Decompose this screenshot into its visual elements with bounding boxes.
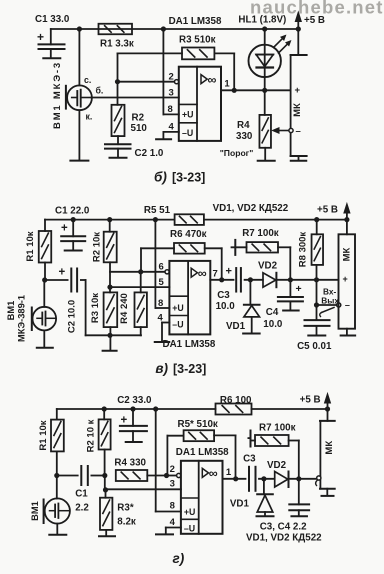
node rail-C1 junction (circuit v) bbox=[71, 217, 76, 222]
resistor R8 300k (circuit v) bbox=[298, 220, 324, 280]
node output/LED junction (circuit b) bbox=[262, 88, 267, 93]
wire +5V rail right section (circuit g) bbox=[252, 408, 328, 410]
svg-text:HL1 (1.8V): HL1 (1.8V) bbox=[238, 15, 286, 26]
svg-text:МК: МК bbox=[324, 441, 335, 455]
wire R6 left to pin6 node (circuit v) bbox=[141, 248, 174, 271]
resistor R4 330 (circuit g) bbox=[114, 458, 166, 481]
wire rail to +U pin 8 (circuit g) bbox=[156, 409, 181, 512]
wire rail to +U pin 8 (circuit v) bbox=[155, 220, 169, 308]
node rail-C1/mic junction (circuit b) bbox=[77, 26, 82, 31]
capacitor C2 33.0 (circuit g) bbox=[117, 395, 152, 441]
capacitor C4 10.0 (circuit v) bbox=[263, 280, 303, 330]
svg-text:R7 100к: R7 100к bbox=[242, 228, 279, 239]
node C3/VD1/VD2 junction (circuit v) bbox=[248, 277, 253, 282]
node R1/mic/C2 junction (circuit v) bbox=[42, 277, 47, 282]
svg-text:3: 3 bbox=[169, 87, 174, 98]
microphone BM1 MKE-3 (circuit b) bbox=[52, 29, 103, 129]
wire R1 to input node (circuit v) bbox=[44, 263, 46, 281]
capacitor C1 22.0 (circuit v) bbox=[55, 206, 90, 250]
ground of MK (circuit b) bbox=[291, 160, 307, 162]
svg-text:R3*: R3* bbox=[117, 503, 134, 514]
svg-text:8: 8 bbox=[158, 298, 163, 309]
svg-text:8.2к: 8.2к bbox=[117, 516, 136, 527]
pin 5 label (circuit v) bbox=[159, 277, 165, 288]
wire C3 to VD2 (circuit g) bbox=[259, 478, 274, 480]
node rail-R2 junction (circuit v) bbox=[107, 217, 112, 222]
ground of microphone (circuit g) bbox=[49, 534, 66, 536]
resistor R1 10k (circuit v) bbox=[25, 220, 51, 263]
svg-text:+5 В: +5 В bbox=[304, 15, 325, 26]
pin 1 label (circuit b) bbox=[224, 78, 230, 89]
wire +5V rail right section (circuit v) bbox=[204, 219, 347, 221]
node C2/R3 junction (circuit v) bbox=[107, 333, 112, 338]
wire +5V rail (circuit b) bbox=[51, 28, 298, 30]
wire +5V rail left section (circuit g) bbox=[57, 408, 216, 410]
diode VD2 (circuit g) bbox=[267, 460, 289, 487]
svg-text:R4: R4 bbox=[237, 120, 250, 131]
switch contact hook (circuit g) bbox=[316, 476, 321, 486]
wire R3 right to output (circuit b) bbox=[214, 53, 234, 90]
caption g) bbox=[173, 551, 185, 566]
svg-text:R1 10к: R1 10к bbox=[38, 420, 49, 450]
pin 8 label (circuit b) bbox=[168, 104, 173, 115]
svg-text:510: 510 bbox=[131, 123, 148, 134]
svg-text:+: + bbox=[226, 266, 232, 278]
ground of C1 (circuit b) bbox=[43, 57, 60, 59]
label C3, C4 2.2 (circuit g) bbox=[260, 522, 307, 533]
svg-text:8: 8 bbox=[170, 501, 175, 512]
svg-text:[3-23]: [3-23] bbox=[173, 362, 206, 376]
svg-text:1: 1 bbox=[224, 78, 230, 89]
svg-text:VD1, VD2 КД522: VD1, VD2 КД522 bbox=[246, 533, 322, 544]
wire op-amp output (circuit b) bbox=[221, 89, 290, 91]
caption b) [3-23] bbox=[154, 170, 205, 185]
node R2/R3/pin5 junction (circuit v) bbox=[107, 285, 112, 290]
wire mic to ground (circuit v) bbox=[43, 330, 45, 346]
pot wiper contact circle (circuit b) bbox=[289, 128, 293, 132]
svg-text:–U: –U bbox=[184, 523, 195, 533]
wire switch line to MK (circuit v) bbox=[317, 304, 337, 306]
node rail-pin8 junction (circuit v) bbox=[153, 217, 158, 222]
label VD1, VD2 KD522 (circuit v) bbox=[213, 203, 289, 214]
ground of R4 (circuit b) bbox=[258, 160, 275, 162]
svg-text:R3 510к: R3 510к bbox=[179, 34, 216, 45]
svg-text:+: + bbox=[296, 283, 302, 295]
svg-text:4: 4 bbox=[169, 122, 175, 133]
wire +5V rail left section (circuit v) bbox=[45, 219, 175, 221]
ground of VD1 (circuit v) bbox=[243, 333, 260, 335]
node R1/mic/C1 junction (circuit g) bbox=[54, 473, 59, 478]
switch contact circle Vkh-Vykh (circuit v) bbox=[320, 287, 341, 317]
svg-text:–: – bbox=[345, 300, 350, 310]
svg-text:VD1, VD2 КД522: VD1, VD2 КД522 bbox=[213, 203, 289, 214]
pin 2 label (circuit g) bbox=[170, 464, 175, 475]
wire MK to ground (circuit g) bbox=[326, 489, 328, 495]
svg-text:Вых: Вых bbox=[321, 296, 339, 306]
connector MK box (circuit v) bbox=[339, 220, 356, 335]
svg-text:C2 10.0: C2 10.0 bbox=[66, 300, 77, 333]
resistor R2 10k (circuit g) bbox=[86, 409, 111, 476]
svg-text:C4: C4 bbox=[266, 307, 279, 318]
svg-text:ВМ1 МКЭ-3: ВМ1 МКЭ-3 bbox=[52, 61, 63, 129]
ground of C1 (circuit v) bbox=[65, 250, 82, 252]
node rail-pin8 junction (circuit b) bbox=[161, 26, 166, 31]
svg-text:+: + bbox=[37, 30, 44, 44]
wire MK to ground (circuit b) bbox=[298, 156, 300, 160]
capacitor C1 2.2 (circuit g) bbox=[57, 466, 105, 514]
node rail-LED junction (circuit b) bbox=[262, 26, 267, 31]
svg-text:C2 1.0: C2 1.0 bbox=[135, 148, 164, 159]
LED HL1 1.8V (circuit b) bbox=[238, 15, 290, 91]
svg-text:DA1 LM358: DA1 LM358 bbox=[169, 16, 222, 27]
svg-text:R4 240: R4 240 bbox=[119, 293, 130, 324]
svg-text:+: + bbox=[295, 85, 301, 96]
svg-text:+: + bbox=[343, 274, 348, 284]
svg-text:R2 10 к: R2 10 к bbox=[86, 419, 97, 452]
capacitor C3 2.2 (circuit g) bbox=[243, 454, 256, 491]
ground of microphone (circuit v) bbox=[37, 347, 53, 349]
microphone BM1 (circuit g) bbox=[30, 476, 70, 524]
wire mic to ground (circuit b) bbox=[78, 110, 80, 159]
svg-text:R7 100к: R7 100к bbox=[259, 423, 296, 434]
svg-text:к.: к. bbox=[86, 112, 93, 122]
svg-text:МК: МК bbox=[341, 247, 352, 261]
resistor R1 3.3k (circuit b) bbox=[99, 24, 134, 50]
node switch junction (circuit v) bbox=[314, 302, 319, 307]
ground of MK (circuit g) bbox=[322, 495, 334, 497]
svg-text:+U: +U bbox=[182, 110, 194, 120]
watermark nauchebe.net bbox=[250, 0, 384, 18]
wire pin 3 input (circuit g) bbox=[105, 488, 181, 490]
pin 2 inverting marker circle (circuit b) bbox=[175, 80, 179, 84]
wire VD2 to MK (circuit g) bbox=[289, 478, 317, 480]
ground of C4 (circuit v) bbox=[283, 310, 299, 312]
node R2/C1/R4 junction (circuit g) bbox=[102, 473, 107, 478]
ground of R3 (circuit v) bbox=[103, 350, 117, 352]
svg-text:R2: R2 bbox=[132, 113, 145, 124]
wire op-amp output (circuit v) bbox=[210, 279, 233, 281]
microphone BM1 MKE-389-1 (circuit v) bbox=[6, 280, 56, 342]
ground of op-amp pin 4 (circuit b) bbox=[156, 138, 171, 140]
ground of C5 (circuit v) bbox=[308, 335, 325, 337]
wire node A to pin3 node (circuit g) bbox=[104, 476, 106, 490]
svg-text:R1 10к: R1 10к bbox=[25, 231, 36, 261]
pin 8 label (circuit g) bbox=[170, 501, 175, 512]
svg-text:∞: ∞ bbox=[208, 73, 217, 87]
svg-text:МКЭ-389-1: МКЭ-389-1 bbox=[16, 295, 26, 342]
svg-text:∞: ∞ bbox=[209, 467, 218, 481]
svg-text:1: 1 bbox=[226, 467, 232, 478]
svg-text:"Порог": "Порог" bbox=[220, 148, 254, 158]
resistor R7 100k (circuit g) bbox=[248, 423, 298, 479]
svg-text:R3 10к: R3 10к bbox=[90, 293, 101, 323]
node rail-MK junction (circuit v) bbox=[344, 217, 349, 222]
svg-text:VD1: VD1 bbox=[230, 498, 250, 509]
svg-text:5: 5 bbox=[159, 277, 165, 288]
svg-text:г): г) bbox=[173, 551, 185, 566]
ground of R3* (circuit g) bbox=[99, 535, 115, 537]
wire R3 left to inverting input node (circuit b) bbox=[118, 53, 183, 81]
svg-text:C3: C3 bbox=[243, 454, 256, 465]
label VD1, VD2 KD522 (circuit g) bbox=[246, 533, 322, 544]
pin 4 label (circuit v) bbox=[158, 312, 164, 323]
svg-text:DA1 LM358: DA1 LM358 bbox=[163, 339, 216, 350]
connector MK bracket (circuit g) bbox=[320, 409, 335, 489]
svg-text:3: 3 bbox=[170, 478, 175, 489]
svg-text:б): б) bbox=[154, 170, 167, 185]
svg-text:R5 51: R5 51 bbox=[144, 205, 171, 216]
node rail-R8 junction (circuit v) bbox=[314, 217, 319, 222]
node rail-pin8 junction (circuit g) bbox=[153, 406, 158, 411]
wire pin 4 to ground (circuit b) bbox=[163, 132, 178, 138]
svg-text:C1 33.0: C1 33.0 bbox=[35, 14, 70, 25]
wire C3 to VD2 (circuit v) bbox=[245, 279, 263, 281]
pin 2 label (circuit b) bbox=[169, 72, 174, 83]
svg-text:VD2: VD2 bbox=[258, 261, 278, 272]
svg-text:+5 В: +5 В bbox=[317, 205, 338, 216]
svg-text:6: 6 bbox=[159, 262, 164, 273]
svg-text:7: 7 bbox=[213, 268, 218, 279]
svg-text:2: 2 bbox=[170, 464, 175, 475]
svg-text:R8 300к: R8 300к bbox=[298, 232, 309, 268]
svg-text:ВМ1: ВМ1 bbox=[6, 301, 16, 321]
svg-text:10.0: 10.0 bbox=[216, 301, 236, 312]
wire mic to ground (circuit g) bbox=[56, 524, 58, 534]
svg-text:с.: с. bbox=[84, 75, 91, 85]
wire pin 6 input (circuit v) bbox=[110, 271, 165, 273]
svg-text:C3, C4 2.2: C3, C4 2.2 bbox=[260, 522, 307, 533]
pin 6 label (circuit v) bbox=[159, 262, 164, 273]
wire R8 to switch line (circuit v) bbox=[316, 280, 318, 305]
node output/R3 junction (circuit b) bbox=[232, 88, 237, 93]
pin 6 inverting marker circle (circuit v) bbox=[165, 270, 169, 274]
wire C2 to R3 bottom (circuit v) bbox=[86, 280, 141, 335]
svg-text:+U: +U bbox=[184, 507, 196, 517]
resistor R5 51 (circuit v) bbox=[144, 205, 204, 225]
resistor R2 510 (circuit b) bbox=[112, 82, 148, 136]
resistor R3* 8.2k (circuit g) bbox=[100, 490, 136, 535]
diode VD1 (circuit v) bbox=[226, 280, 260, 333]
connector MK (circuit b) bbox=[291, 29, 307, 156]
wire pin 2 input (circuit g) bbox=[167, 475, 177, 477]
pin 1 label (circuit g) bbox=[226, 467, 232, 478]
pin 3 label (circuit g) bbox=[170, 478, 175, 489]
wire VD2 to output node (circuit v) bbox=[276, 279, 338, 281]
svg-text:в): в) bbox=[155, 361, 168, 376]
ground of C2 (circuit g) bbox=[126, 441, 142, 443]
node rail-MK junction (circuit b) bbox=[296, 26, 301, 31]
svg-text:C1 22.0: C1 22.0 bbox=[55, 206, 90, 217]
svg-text:б.: б. bbox=[96, 86, 104, 96]
svg-text:R1 3.3к: R1 3.3к bbox=[100, 39, 134, 50]
node inverting input junction (circuit b) bbox=[115, 79, 120, 84]
resistor R3 510k (circuit b) bbox=[179, 34, 216, 59]
svg-text:R6 470к: R6 470к bbox=[170, 229, 207, 240]
node output/R6 junction (circuit v) bbox=[219, 277, 224, 282]
wire pin 4 to ground (circuit g) bbox=[166, 528, 181, 534]
pin 7 label (circuit v) bbox=[213, 268, 218, 279]
resistor R2 10k (circuit v) bbox=[92, 220, 117, 263]
ground of C2 (circuit b) bbox=[110, 157, 127, 159]
wire rail node to +U pin 8 (circuit b) bbox=[163, 29, 178, 114]
svg-text:VD2: VD2 bbox=[267, 460, 287, 471]
pin 4 label (circuit g) bbox=[170, 517, 176, 528]
resistor R6 470k (circuit v) bbox=[170, 229, 207, 254]
capacitor C3 10.0 (circuit v) bbox=[216, 266, 241, 313]
power +5V arrow (circuit b) bbox=[295, 12, 325, 29]
wire pin 4 to ground (circuit v) bbox=[162, 323, 169, 342]
op-amp DA1 LM358 (circuit g) bbox=[176, 447, 229, 534]
caption v) [3-23] bbox=[155, 361, 206, 376]
svg-text:8: 8 bbox=[168, 104, 173, 115]
node R4/R5/pin2 junction (circuit g) bbox=[164, 473, 169, 478]
svg-text:2.2: 2.2 bbox=[75, 503, 89, 514]
node VD2/R7/C4 junction (circuit g) bbox=[296, 476, 301, 481]
node output/R8 junction (circuit v) bbox=[314, 277, 319, 282]
svg-text:–U: –U bbox=[172, 320, 183, 330]
wire R2 to pin5 node (circuit v) bbox=[109, 262, 111, 287]
svg-text:330: 330 bbox=[236, 131, 253, 142]
node rail-MK junction (circuit g) bbox=[325, 406, 330, 411]
svg-text:R2 10к: R2 10к bbox=[92, 232, 103, 262]
op-amp DA1 LM358 (circuit b) bbox=[169, 16, 222, 141]
pin 4 label (circuit b) bbox=[169, 122, 175, 133]
resistor R3 10k (circuit v) bbox=[90, 287, 117, 350]
node output/R5 junction (circuit g) bbox=[233, 476, 238, 481]
svg-text:R6 100: R6 100 bbox=[220, 395, 252, 406]
node rail-R2 junction (circuit g) bbox=[102, 406, 107, 411]
svg-text:+: + bbox=[61, 223, 68, 235]
ground of VD1 (circuit g) bbox=[257, 515, 274, 517]
resistor R7 100k (circuit v) bbox=[232, 228, 291, 280]
node R3/pin3 junction (circuit g) bbox=[103, 487, 108, 492]
svg-text:ВМ1: ВМ1 bbox=[30, 501, 40, 521]
svg-text:R5* 510к: R5* 510к bbox=[178, 419, 218, 430]
capacitor C4 2.2 (circuit g) bbox=[289, 479, 309, 515]
wire R4 to ground (circuit b) bbox=[264, 148, 266, 160]
ground of MK (circuit v) bbox=[341, 335, 356, 337]
power +5V arrow (circuit v) bbox=[317, 204, 350, 220]
pin 8 label (circuit v) bbox=[158, 298, 163, 309]
node VD2/R7/C4 junction (circuit v) bbox=[288, 277, 293, 282]
svg-text:VD1: VD1 bbox=[226, 321, 246, 332]
potentiometer R4 330 Porog (circuit b) bbox=[220, 90, 289, 158]
wire pin 2 input (circuit b) bbox=[118, 81, 175, 83]
svg-text:МК: МК bbox=[292, 103, 303, 117]
resistor R5* 510k (circuit g) bbox=[167, 419, 235, 479]
ground of op-amp pin 4 (circuit v) bbox=[155, 341, 170, 343]
svg-text:2: 2 bbox=[169, 72, 174, 83]
svg-text:–U: –U bbox=[182, 128, 193, 138]
capacitor C5 0.01 (circuit v) bbox=[297, 305, 332, 352]
svg-text:∞: ∞ bbox=[198, 266, 207, 280]
wire pin 5 input (circuit v) bbox=[110, 286, 169, 288]
pin 2 inverting marker circle (circuit g) bbox=[177, 473, 181, 477]
svg-text:R4 330: R4 330 bbox=[114, 458, 146, 469]
node R4/pin6 junction (circuit v) bbox=[138, 269, 143, 274]
op-amp DA1 LM358 (circuit v) bbox=[163, 261, 216, 350]
svg-text:4: 4 bbox=[170, 517, 176, 528]
wire R6 right to output (circuit v) bbox=[205, 248, 222, 279]
svg-text:10.0: 10.0 bbox=[263, 319, 283, 330]
ground of op-amp pin 4 (circuit g) bbox=[156, 533, 173, 535]
ground of C4 (circuit g) bbox=[291, 515, 307, 517]
svg-text:[3-23]: [3-23] bbox=[172, 171, 205, 185]
svg-text:C1: C1 bbox=[75, 489, 88, 500]
svg-text:C2 33.0: C2 33.0 bbox=[117, 395, 152, 406]
svg-text:+U: +U bbox=[172, 303, 184, 313]
node C3/VD1/VD2 junction (circuit g) bbox=[261, 476, 266, 481]
wire mic to pin 3 (circuit b) bbox=[91, 97, 179, 99]
svg-text:C5 0.01: C5 0.01 bbox=[297, 341, 332, 352]
resistor R4 240 (circuit v) bbox=[119, 272, 147, 336]
power +5V arrow (circuit g) bbox=[300, 394, 331, 410]
svg-text:+: + bbox=[121, 414, 128, 426]
ground of microphone (circuit b) bbox=[70, 160, 88, 162]
svg-text:+5 В: +5 В bbox=[300, 395, 321, 406]
svg-text:DA1 LM358: DA1 LM358 bbox=[176, 447, 229, 458]
svg-text:+: + bbox=[59, 267, 66, 279]
diode VD2 (circuit v) bbox=[258, 261, 278, 288]
resistor R1 10k (circuit g) bbox=[38, 409, 64, 476]
svg-text:C3: C3 bbox=[217, 290, 230, 301]
wire op-amp output (circuit g) bbox=[223, 478, 246, 480]
capacitor C1 33.0 (circuit b) bbox=[35, 14, 70, 57]
capacitor C2 10.0 (circuit v) bbox=[45, 267, 86, 334]
capacitor C2 1.0 (circuit b) bbox=[105, 136, 164, 159]
svg-text:–: – bbox=[296, 126, 301, 137]
node rail-C2 junction (circuit g) bbox=[130, 406, 135, 411]
resistor R6 100 (circuit g) bbox=[216, 395, 253, 415]
diode VD1 (circuit g) bbox=[230, 479, 273, 515]
pin 3 label (circuit b) bbox=[169, 87, 174, 98]
